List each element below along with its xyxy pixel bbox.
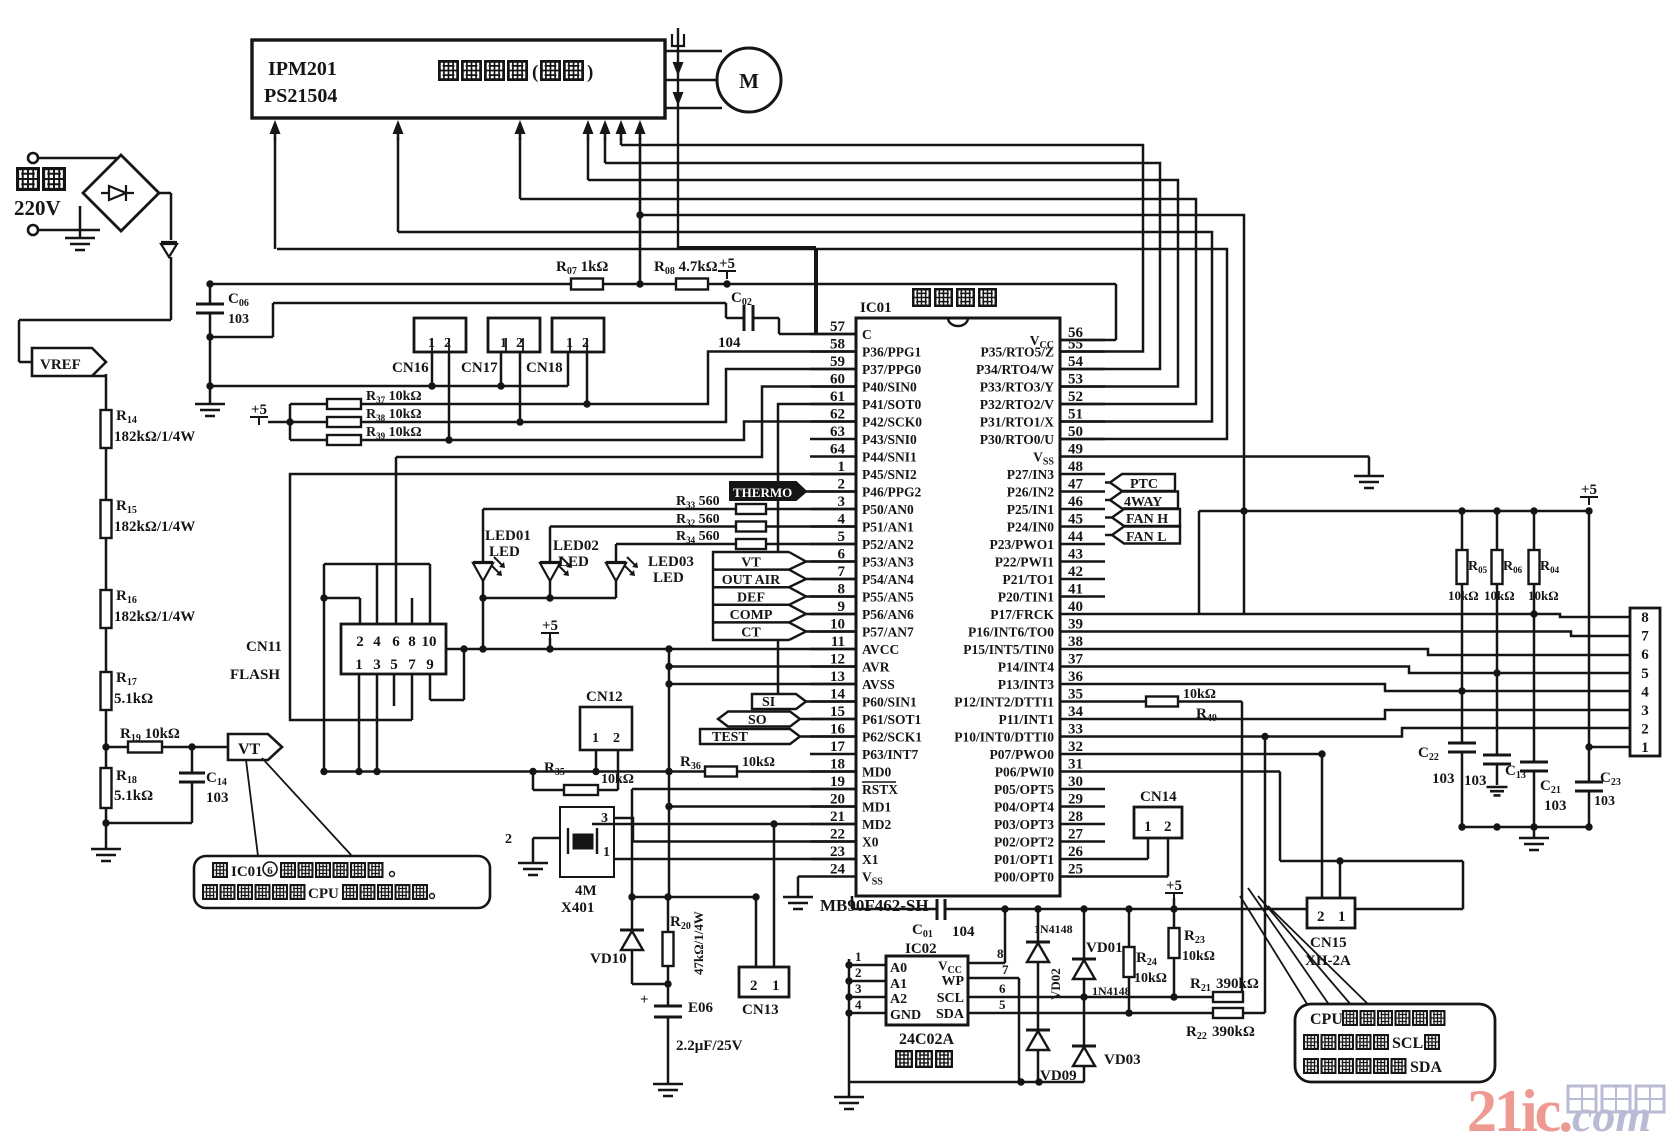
svg-text:103: 103 [1544, 798, 1567, 814]
wire R14-R15 [105, 448, 108, 500]
svg-text:6: 6 [392, 634, 400, 650]
svg-text:5: 5 [1641, 666, 1649, 682]
wire IPM to motor W [665, 107, 722, 110]
svg-text:P27/IN3: P27/IN3 [1007, 467, 1055, 482]
svg-text:IPM201: IPM201 [268, 58, 337, 80]
node flag TEST [700, 729, 800, 744]
svg-text:P21/TO1: P21/TO1 [1002, 572, 1054, 587]
svg-text:MD1: MD1 [862, 800, 891, 815]
svg-text:6: 6 [999, 981, 1006, 996]
CN16 CN17 CN18 pin ticks [432, 338, 449, 352]
svg-text:MB90F462-SH: MB90F462-SH [820, 896, 929, 915]
wire CN14 pin1 to pin26 [1147, 838, 1150, 859]
wire bus pin53 [588, 180, 1178, 387]
wire pin33 to connector pin2 [1105, 728, 1630, 737]
svg-text:7: 7 [1002, 962, 1009, 977]
svg-text:THERMO: THERMO [733, 485, 792, 500]
svg-text:P43/SNI0: P43/SNI0 [862, 432, 917, 447]
svg-text:P22/PWI1: P22/PWI1 [995, 555, 1054, 570]
LED02 [540, 562, 560, 581]
svg-text:IC02: IC02 [905, 941, 937, 957]
svg-text:4: 4 [855, 997, 862, 1012]
resistor R08 4.7k [603, 283, 676, 286]
svg-text:29: 29 [1068, 792, 1083, 808]
svg-text:): ) [587, 62, 593, 83]
svg-text:43: 43 [1068, 547, 1083, 563]
svg-text:R37 10kΩ: R37 10kΩ [366, 389, 422, 405]
node flag SO [718, 712, 800, 727]
resistor R37 10k [290, 403, 327, 406]
svg-text:47kΩ/1/4W: 47kΩ/1/4W [691, 911, 706, 975]
wire R16-R17 [105, 628, 108, 672]
wire CN11 pin6 up [395, 457, 398, 624]
svg-text:P32/RTO2/V: P32/RTO2/V [980, 397, 1055, 412]
AC input terminal upper [28, 153, 38, 163]
connector CN14 [1134, 807, 1182, 838]
svg-text:2.2μF/25V: 2.2μF/25V [676, 1038, 743, 1054]
svg-text:103: 103 [1464, 773, 1487, 789]
svg-text:SDA: SDA [936, 1007, 965, 1022]
wire LED01 anode to R33 [482, 509, 485, 562]
svg-text:P01/OPT1: P01/OPT1 [994, 852, 1054, 867]
capacitor C21 103 [1533, 617, 1536, 762]
wire SDA line [968, 1012, 1213, 1015]
svg-text:CN14: CN14 [1140, 789, 1177, 805]
wire LED cathodes rail [482, 581, 485, 649]
wire bridge output right [159, 192, 171, 195]
svg-text:CN15: CN15 [1310, 935, 1347, 951]
svg-text:M: M [739, 69, 759, 93]
crystal X401 4M [560, 807, 614, 877]
svg-text:P11/INT1: P11/INT1 [998, 712, 1054, 727]
svg-text:38: 38 [1068, 634, 1083, 650]
ground crystal [518, 863, 548, 875]
svg-text:9: 9 [838, 599, 846, 615]
svg-text:10kΩ: 10kΩ [742, 755, 775, 770]
svg-text:2: 2 [444, 336, 451, 351]
svg-text:LED01: LED01 [485, 528, 531, 544]
svg-text:P61/SOT1: P61/SOT1 [862, 712, 922, 727]
svg-text:CN17: CN17 [461, 360, 498, 376]
svg-text:10: 10 [422, 634, 437, 650]
svg-text:24: 24 [830, 862, 846, 878]
svg-text:16: 16 [830, 722, 846, 738]
svg-text:4: 4 [373, 634, 381, 650]
svg-text:P25/IN1: P25/IN1 [1007, 502, 1055, 517]
svg-text:2: 2 [516, 336, 523, 351]
wire pin37 to connector pin5 [1105, 667, 1630, 674]
LED01 [473, 562, 493, 581]
wire CN11 pin2 down [323, 598, 326, 772]
connector CN17 [488, 318, 540, 352]
svg-text:AVCC: AVCC [862, 642, 899, 657]
svg-text:P07/PWO0: P07/PWO0 [990, 747, 1055, 762]
svg-text:27: 27 [1068, 827, 1084, 843]
svg-text:P56/AN6: P56/AN6 [862, 607, 914, 622]
wire ground to C02 [273, 302, 726, 305]
svg-text:P45/SNI2: P45/SNI2 [862, 467, 917, 482]
diode VD at rectifier output [161, 242, 177, 257]
svg-text:+5: +5 [251, 402, 267, 418]
wire R37 to pin58 [361, 352, 856, 405]
svg-text:P42/SCK0: P42/SCK0 [862, 415, 922, 430]
svg-text:39: 39 [1068, 617, 1083, 633]
svg-text:X0: X0 [862, 835, 879, 850]
svg-text:CN16: CN16 [392, 360, 429, 376]
svg-text:LED: LED [653, 570, 684, 586]
wire to E06 [667, 984, 670, 1006]
svg-text:P03/OPT3: P03/OPT3 [994, 817, 1054, 832]
wire Vss pin49 to ground [1105, 455, 1369, 458]
svg-text:P10/INT0/DTTI0: P10/INT0/DTTI0 [954, 730, 1054, 745]
+5 AVCC rail [446, 648, 856, 651]
wire VREF to R14 [92, 375, 106, 378]
label AC 220V [18, 169, 39, 190]
svg-text:11: 11 [831, 634, 845, 650]
resistor R33 560 [736, 504, 766, 514]
svg-text:54: 54 [1068, 354, 1084, 370]
wire IPM to motor U [665, 50, 722, 53]
wire bus pin50 [277, 249, 1227, 439]
leader lines callout [1248, 888, 1330, 1006]
svg-text:R32 560: R32 560 [676, 512, 720, 528]
svg-text:2: 2 [838, 477, 846, 493]
resistor R04 10k pullup [1533, 511, 1536, 550]
svg-text:VD10: VD10 [590, 951, 627, 967]
ground Vss pin24 [798, 875, 810, 878]
svg-text:10kΩ: 10kΩ [1183, 687, 1216, 702]
wire R21 to pin35 net [1241, 702, 1244, 993]
ground pin49 [1354, 476, 1384, 488]
IPM input arrow e [604, 128, 607, 140]
svg-text:28: 28 [1068, 809, 1083, 825]
svg-text:MD2: MD2 [862, 817, 891, 832]
svg-text:CN13: CN13 [742, 1002, 779, 1018]
connector CN12 [580, 707, 632, 750]
resistor R35 10k [564, 785, 598, 795]
wire LED03 anode to R34 [615, 544, 618, 562]
capacitor E06 electrolytic [654, 1006, 682, 1017]
svg-text:33: 33 [1068, 722, 1083, 738]
svg-text:R19 10kΩ: R19 10kΩ [120, 726, 180, 744]
svg-text:23: 23 [830, 844, 845, 860]
svg-text:36: 36 [1068, 669, 1084, 685]
wire R18 to ground [105, 808, 108, 849]
svg-text:10kΩ: 10kΩ [1134, 971, 1167, 986]
node flag 4WAY [1110, 492, 1178, 509]
svg-text:P53/AN3: P53/AN3 [862, 555, 914, 570]
svg-text:E06: E06 [688, 1000, 714, 1016]
capacitor C23 103 [1588, 747, 1591, 782]
heavy wire to pin57 [678, 246, 816, 250]
wire LED02 anode to R32 [549, 527, 552, 563]
wire R19 to VT [162, 746, 228, 749]
IPM input arrow d [587, 128, 590, 140]
svg-text:8: 8 [997, 946, 1004, 961]
svg-text:30: 30 [1068, 774, 1083, 790]
svg-text:+5: +5 [1581, 482, 1597, 498]
svg-text:41: 41 [1068, 582, 1083, 598]
svg-text:1: 1 [1144, 819, 1152, 835]
svg-text:10kΩ: 10kΩ [1448, 588, 1479, 603]
svg-text:3: 3 [1641, 703, 1649, 719]
svg-text:P37/PPG0: P37/PPG0 [862, 362, 921, 377]
svg-text:CN18: CN18 [526, 360, 563, 376]
svg-text:51: 51 [1068, 407, 1083, 423]
svg-text:A0: A0 [890, 961, 907, 976]
wire pin61 down [778, 404, 856, 700]
svg-text:P40/SIN0: P40/SIN0 [862, 380, 917, 395]
svg-text:+5: +5 [719, 256, 735, 272]
wire pin40 to connector pin8 [1105, 614, 1630, 617]
svg-text:P15/INT5/TIN0: P15/INT5/TIN0 [963, 642, 1054, 657]
resistor R39 10k [290, 439, 327, 442]
label driver circuit module [439, 61, 457, 79]
svg-text:P02/OPT2: P02/OPT2 [994, 835, 1054, 850]
svg-text:SCL: SCL [937, 991, 964, 1006]
IC01 right pin stubs and numbers [1060, 339, 1105, 342]
callout note about SCL SDA [1295, 1004, 1495, 1082]
capacitor C01 104 [937, 899, 945, 920]
svg-text:7: 7 [1641, 629, 1649, 645]
ground right caps [1533, 827, 1536, 838]
svg-text:220V: 220V [14, 196, 61, 220]
svg-text:8: 8 [1641, 610, 1649, 626]
svg-text:P05/OPT5: P05/OPT5 [994, 782, 1054, 797]
wire CN11 pin2 net [359, 598, 362, 624]
svg-text:P14/INT4: P14/INT4 [998, 660, 1055, 675]
wire R22 up to pin33 [1243, 1012, 1265, 1015]
wire crystal pin1 to X1 [614, 858, 856, 861]
svg-text:CN11: CN11 [246, 639, 282, 655]
svg-text:182kΩ/1/4W: 182kΩ/1/4W [114, 609, 195, 625]
svg-text:C: C [862, 327, 872, 342]
svg-text:25: 25 [1068, 862, 1083, 878]
svg-text:7: 7 [838, 564, 846, 580]
svg-text:P00/OPT0: P00/OPT0 [994, 870, 1054, 885]
connector CN18 [552, 318, 604, 352]
resistor R15 182k [101, 500, 112, 538]
wire CN pin1 common [210, 385, 568, 388]
svg-text:X401: X401 [561, 900, 594, 916]
wire CN11 pin3 [376, 674, 379, 772]
node VREF flag [32, 348, 106, 376]
svg-text:P20/TIN1: P20/TIN1 [998, 590, 1055, 605]
svg-text:CPU: CPU [1310, 1011, 1343, 1028]
svg-text:57: 57 [830, 319, 846, 335]
wire R39 to pin62 [361, 422, 856, 441]
wire CN11 pin5 stub [393, 674, 396, 706]
svg-text:CPU: CPU [308, 886, 339, 902]
svg-text:A1: A1 [890, 977, 907, 992]
svg-text:VD01: VD01 [1086, 940, 1123, 956]
svg-text:46: 46 [1068, 494, 1084, 510]
bridge rectifier [83, 155, 159, 231]
svg-text:P30/RTO0/U: P30/RTO0/U [980, 432, 1055, 447]
wire CN11 pin1 [358, 674, 361, 772]
svg-text:53: 53 [1068, 372, 1083, 388]
connector CN15 XH-2A [1307, 898, 1355, 928]
node flag FAN L [1112, 527, 1180, 544]
wire IC02 address pins to ground bus [848, 959, 851, 1082]
vertical line with phase arrows [677, 28, 679, 248]
svg-text:A2: A2 [890, 992, 907, 1007]
svg-text:P63/INT7: P63/INT7 [862, 747, 919, 762]
svg-text:390kΩ: 390kΩ [1212, 1024, 1255, 1040]
svg-text:35: 35 [1068, 687, 1083, 703]
svg-text:1: 1 [855, 949, 862, 964]
svg-text:P55/AN5: P55/AN5 [862, 590, 914, 605]
svg-text:TEST: TEST [712, 730, 748, 745]
IPM input arrow g +5 feed [639, 128, 642, 140]
resistor R21 390k [1213, 992, 1243, 1002]
wire bus +5 rail feed [640, 215, 1244, 613]
svg-text:12: 12 [830, 652, 845, 668]
svg-text:1: 1 [1641, 740, 1649, 756]
svg-text:XH-2A: XH-2A [1305, 953, 1351, 969]
svg-text:VREF: VREF [40, 357, 81, 373]
svg-text:P44/SNI1: P44/SNI1 [862, 450, 917, 465]
wire R15-R16 [105, 538, 108, 590]
svg-text:P31/RTO1/X: P31/RTO1/X [980, 415, 1055, 430]
resistor R20 47k [667, 897, 670, 932]
svg-text:4M: 4M [575, 883, 597, 899]
svg-text:VD03: VD03 [1104, 1052, 1141, 1068]
resistor R05 10k pullup [1461, 511, 1464, 550]
svg-text:1: 1 [592, 731, 599, 746]
node flag PTC [1110, 474, 1175, 491]
svg-text:62: 62 [830, 407, 845, 423]
svg-text:VD09: VD09 [1040, 1068, 1077, 1084]
+5 rail bottom [945, 908, 1174, 911]
svg-text:P41/SOT0: P41/SOT0 [862, 397, 922, 412]
ground left chain [91, 849, 121, 861]
svg-text:VT: VT [238, 741, 261, 758]
wire E06 to ground [667, 1017, 670, 1084]
svg-text:103: 103 [206, 790, 229, 806]
resistor R32 560 [736, 522, 766, 532]
wire CN11 pin6 to pin60 [396, 387, 856, 458]
svg-text:10kΩ: 10kΩ [1484, 588, 1515, 603]
label microprocessor [913, 289, 930, 306]
svg-text:59: 59 [830, 354, 845, 370]
svg-text:CN12: CN12 [586, 689, 623, 705]
svg-text:SO: SO [748, 713, 767, 728]
svg-text:20: 20 [830, 792, 845, 808]
svg-text:P51/AN1: P51/AN1 [862, 520, 914, 535]
svg-text:52: 52 [1068, 389, 1083, 405]
svg-text:P16/INT6/TO0: P16/INT6/TO0 [968, 625, 1054, 640]
svg-text:+: + [640, 992, 649, 1008]
wire RSTX row [632, 788, 856, 791]
wire bus pin52 [520, 199, 1196, 404]
wire rail left corner [1198, 511, 1201, 613]
node flag FAN H [1112, 509, 1180, 526]
wire VD10 branch [631, 897, 634, 930]
svg-text:8: 8 [838, 582, 846, 598]
+5 rail right [1199, 510, 1589, 513]
svg-text:21ic.: 21ic. [1467, 1078, 1571, 1134]
resistor R22 390k [1213, 1008, 1243, 1018]
svg-text:P57/AN7: P57/AN7 [862, 625, 914, 640]
svg-text:104: 104 [952, 924, 975, 940]
wire CN12 pin1 to MD0 [595, 750, 598, 772]
svg-text:103: 103 [1594, 794, 1615, 809]
svg-text:RSTX: RSTX [862, 782, 898, 797]
svg-text:63: 63 [830, 424, 845, 440]
capacitor C13 103 [1496, 673, 1499, 755]
wire CN12 pin2 to R35 [617, 750, 620, 790]
svg-text:61: 61 [830, 389, 845, 405]
svg-text:2: 2 [1641, 722, 1649, 738]
connector CN13 [739, 967, 789, 997]
svg-text:GND: GND [890, 1008, 921, 1023]
wire pin38 to connector pin6 [1105, 649, 1630, 655]
svg-text:P50/AN0: P50/AN0 [862, 502, 914, 517]
diode VD01 [1083, 909, 1086, 959]
svg-text:15: 15 [830, 704, 845, 720]
svg-text:40: 40 [1068, 599, 1083, 615]
svg-text:P12/INT2/DTTI1: P12/INT2/DTTI1 [954, 695, 1054, 710]
svg-text:R38 10kΩ: R38 10kΩ [366, 407, 422, 423]
wire R17-R18 with node [105, 710, 108, 768]
wire crystal pin2 to ground [533, 837, 560, 840]
ground at bridge [79, 206, 82, 238]
resistor R34 560 [736, 539, 766, 549]
ground rail caps [1462, 826, 1589, 829]
svg-text:18: 18 [830, 757, 845, 773]
signal flag group VT OUT-AIR DEF COMP CT [713, 552, 789, 640]
svg-text:P54/AN4: P54/AN4 [862, 572, 914, 587]
wire CN13 pin1 up [773, 824, 776, 967]
svg-text:FAN L: FAN L [1126, 530, 1167, 545]
svg-text:SDA: SDA [1410, 1059, 1442, 1076]
motor M [717, 48, 781, 112]
small ground C13 [1487, 787, 1508, 795]
svg-text:5: 5 [390, 657, 398, 673]
svg-text:IC01: IC01 [860, 300, 892, 316]
IPM input arrow b [397, 128, 400, 140]
svg-text:64: 64 [830, 442, 846, 458]
svg-text:8: 8 [408, 634, 416, 650]
svg-text:CT: CT [741, 626, 761, 641]
svg-text:SI: SI [762, 695, 775, 710]
resistor R36 10k [705, 767, 737, 777]
svg-text:17: 17 [830, 739, 846, 755]
IC01 left pin stubs and numbers [810, 333, 856, 336]
svg-text:37: 37 [1068, 652, 1084, 668]
wire C06 ground branch [210, 336, 273, 339]
wire bus pin55 [621, 145, 1143, 352]
connector CN16 [414, 318, 466, 352]
wire +5 to connector pin1 [1588, 511, 1591, 747]
ground IC02 [834, 1097, 864, 1109]
svg-text:19: 19 [830, 774, 845, 790]
svg-text:182kΩ/1/4W: 182kΩ/1/4W [114, 429, 195, 445]
svg-text:LED03: LED03 [648, 554, 694, 570]
wire AC upper to bridge [38, 157, 117, 160]
svg-text:10: 10 [830, 617, 845, 633]
node flag SI [752, 694, 806, 709]
capacitor C06 103 [209, 284, 212, 304]
wire R40 right to R21 [1178, 700, 1242, 703]
svg-text:103: 103 [1432, 771, 1455, 787]
resistor R06 10k pullup [1496, 511, 1499, 550]
wire pin32 long [1105, 753, 1322, 756]
wire Vcc pin56 [1115, 284, 1118, 340]
svg-text:103: 103 [228, 312, 249, 327]
svg-text:+5: +5 [542, 618, 558, 634]
